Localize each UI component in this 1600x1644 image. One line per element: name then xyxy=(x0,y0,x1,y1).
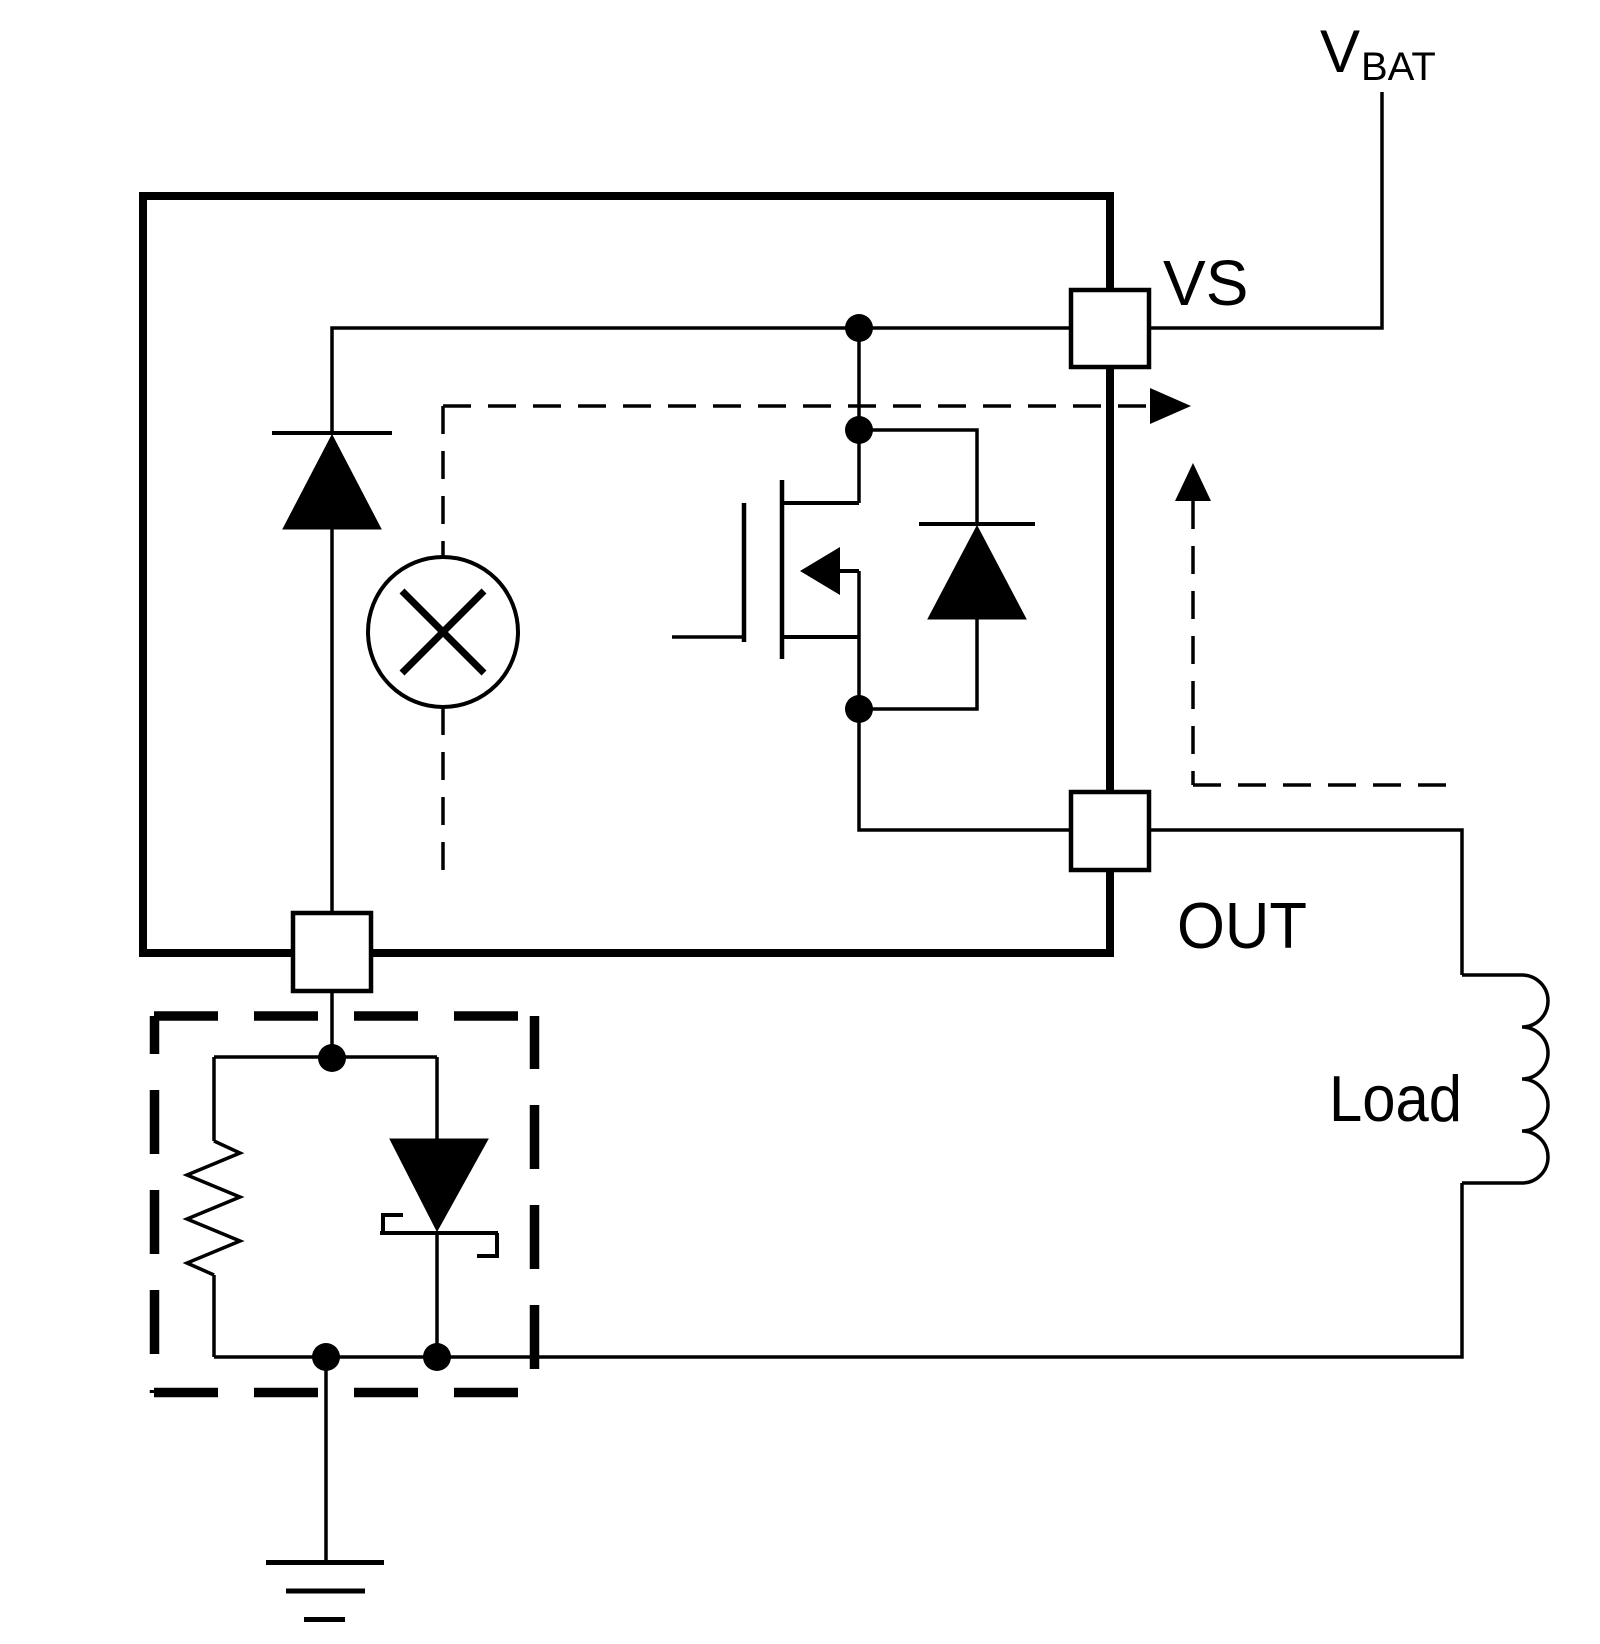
zener Z1 left hook xyxy=(383,1215,403,1233)
svg-text:OUT: OUT xyxy=(1177,889,1307,962)
diode D1 cathode bar xyxy=(272,431,392,435)
wire: D1 anode down to bottom pin xyxy=(330,529,334,913)
wire: internal top rail from diode to VS pin xyxy=(332,328,1071,433)
body diode D2 cathode bar xyxy=(919,522,1035,526)
junction dot: ground tap xyxy=(312,1343,340,1371)
wire: D2 anode to source node xyxy=(859,619,977,709)
lamp / crossed-circle X1 xyxy=(368,557,518,707)
dashed current path: horizontal to right arrow xyxy=(443,404,1150,408)
lamp X stroke 2 xyxy=(402,591,484,673)
dashed current path: vertical below lamp xyxy=(441,707,445,881)
transistor Q1 body tap xyxy=(840,569,859,573)
junction dot: source / body diode merge xyxy=(845,695,873,723)
ground bar 3 xyxy=(304,1617,345,1622)
svg-text:Load: Load xyxy=(1329,1062,1462,1135)
wire: OUT pin to load xyxy=(1149,830,1462,975)
transistor Q1 gate lead xyxy=(672,635,744,639)
dashed clamp box right edge xyxy=(530,1016,540,1393)
transistor Q1 drain stub xyxy=(782,501,859,505)
wire: VS node down to MOSFET drain xyxy=(857,328,861,503)
junction dot: top rail / drain branch xyxy=(845,314,873,342)
wire: VS pin to VBAT supply xyxy=(1149,92,1382,328)
svg-text:V: V xyxy=(1320,18,1360,85)
dashed current path: vertical right of box with up arrow xyxy=(1191,501,1195,785)
svg-text:BAT: BAT xyxy=(1361,45,1436,89)
transistor Q1 gate bar xyxy=(742,503,747,642)
resistor R1 top lead xyxy=(212,1057,216,1141)
wire: bottom pin to clamp network xyxy=(330,991,334,1058)
transistor Q1 source stub xyxy=(782,635,859,639)
ground bar 1 xyxy=(266,1560,384,1565)
resistor R1 bottom lead xyxy=(212,1275,216,1357)
diode D1 (anode-up triangle) xyxy=(283,435,381,529)
inductor Load (4 half-loops) xyxy=(1462,975,1548,1183)
zener Z1 right hook xyxy=(477,1233,497,1256)
arrowhead right (dashed path) xyxy=(1150,388,1191,424)
zener Z1 bottom lead xyxy=(435,1233,439,1357)
wire: clamp top rail xyxy=(214,1055,437,1059)
dashed clamp box left edge xyxy=(150,1016,160,1393)
pin OUT (square terminal) xyxy=(1071,792,1149,870)
lamp X stroke 1 xyxy=(402,591,484,673)
wire: ground stem xyxy=(324,1357,328,1562)
zener Z1 (cathode-down triangle) xyxy=(390,1139,488,1231)
dashed clamp box bottom edge xyxy=(154,1388,535,1398)
label VBAT xyxy=(1320,18,1436,89)
junction dot: drain / body diode split xyxy=(845,416,873,444)
pin VS (square terminal) xyxy=(1071,290,1149,367)
dashed current path: horizontal bottom segment xyxy=(1193,783,1456,787)
junction dot: clamp top rail xyxy=(318,1044,346,1072)
ground bar 2 xyxy=(286,1589,365,1594)
transistor Q1 body arrow xyxy=(800,547,840,595)
arrowhead up (dashed path) xyxy=(1175,463,1211,501)
wire: Q1 source down to OUT rail xyxy=(859,571,1071,830)
transistor Q1 channel bar xyxy=(780,480,785,659)
body diode D2 (anode-up triangle) xyxy=(928,526,1026,619)
pin GND bottom (square terminal) xyxy=(293,913,371,991)
wire: branch to body diode top xyxy=(859,430,977,524)
junction dot: zener bottom xyxy=(423,1343,451,1371)
IC boundary box (thick outline) xyxy=(143,196,1110,953)
dashed current path: vertical above lamp xyxy=(441,406,445,557)
zener Z1 top lead xyxy=(435,1057,439,1139)
wire: load bottom to ground rail xyxy=(214,1183,1462,1357)
zener Z1 cathode bar xyxy=(380,1231,498,1235)
dashed clamp box top edge xyxy=(154,1011,535,1021)
svg-text:VS: VS xyxy=(1163,247,1248,319)
resistor R1 zigzag xyxy=(187,1141,240,1275)
